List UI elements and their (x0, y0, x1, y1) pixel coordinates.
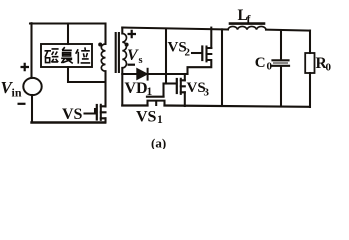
transistor VS stubs (101, 106, 106, 118)
svg-text:3: 3 (204, 87, 210, 99)
magnetic reset box 磁复位 (41, 44, 92, 67)
transistor VS channel (100, 105, 102, 120)
svg-text:VD: VD (125, 80, 148, 97)
wire source bottom to bottom rail (31, 95, 33, 123)
wire VS1 gate drop (162, 84, 164, 97)
wire secondary bottom lead down to bottom rail (121, 68, 123, 106)
svg-text:(a): (a) (151, 136, 166, 150)
transistor VS2 drain lead (210, 28, 212, 48)
wire VD1 cathode to VS2-source node (148, 73, 188, 75)
transistor VS3 drain lead (184, 74, 186, 80)
transistor VS2 gate lead (192, 52, 202, 54)
transistor VS3 channel (180, 79, 182, 94)
svg-text:s: s (139, 55, 143, 66)
inductor Lf core bar (230, 22, 264, 25)
wire gate junction horizontal to VS3 gate (164, 82, 176, 84)
svg-text:VS: VS (62, 106, 83, 123)
resistor R0 bottom lead (309, 73, 311, 107)
diode VD1 anode wire (122, 73, 137, 75)
voltage source Vin (23, 78, 41, 95)
wire bottom rail secondary side (122, 106, 309, 107)
wire top-left rail (30, 22, 105, 24)
minus sign Vin (18, 103, 26, 105)
wire freewheel node vertical (221, 29, 223, 106)
wire secondary top lead (121, 28, 123, 34)
transformer secondary winding (122, 34, 126, 68)
transistor VS source lead (104, 118, 106, 122)
capacitor C0 top lead (280, 30, 282, 60)
transformer core (116, 33, 119, 72)
wire reset-box top drop (67, 24, 69, 45)
capacitor C0 plates (273, 59, 289, 61)
resistor R0 body (305, 53, 314, 73)
plus sign Vs (128, 30, 137, 38)
node dot secondary polarity (125, 43, 129, 47)
transistor VS2 gate bar (201, 47, 203, 61)
svg-text:1: 1 (157, 114, 163, 126)
transistor VS2 channel (205, 47, 207, 62)
capacitor C0 bottom lead (280, 67, 282, 107)
minus sign Vs (128, 64, 136, 66)
transistor VS1 gate bar (147, 96, 164, 98)
svg-text:V: V (127, 47, 139, 64)
wire reset-box bottom elbow (68, 67, 105, 82)
node dot primary polarity (98, 43, 102, 47)
transistor VS3 source lead (184, 92, 186, 106)
svg-text:0: 0 (267, 61, 273, 73)
svg-text:2: 2 (185, 47, 191, 59)
transistor VS3 gate bar (176, 79, 178, 93)
transistor VS3 stubs (181, 80, 185, 92)
wire Lf to output (266, 30, 310, 31)
svg-text:in: in (12, 86, 22, 100)
plus sign Vin (21, 63, 30, 71)
label 磁复位 (drawn strokes) (45, 47, 91, 63)
wire primary bottom lead to VS drain (104, 71, 106, 106)
transistor VS gate lead (85, 109, 96, 114)
svg-text:1: 1 (147, 86, 153, 98)
wire gate drive vertical from top rail (165, 29, 167, 84)
wire primary top lead (104, 24, 106, 45)
wire VS2 source elbow down to node (188, 62, 212, 74)
wire left vertical from rail to source + (30, 23, 32, 78)
svg-text:VS: VS (136, 109, 157, 126)
diode VD1 (137, 69, 147, 79)
resistor R0 top lead (309, 31, 311, 53)
transformer primary winding (101, 44, 105, 71)
wire secondary top rail to Lf (122, 28, 228, 30)
svg-text:0: 0 (326, 62, 332, 74)
svg-text:C: C (255, 55, 266, 71)
transistor VS2 stubs (207, 48, 212, 60)
inductor Lf winding (228, 26, 266, 29)
transistor VS gate bar (96, 105, 98, 120)
wire bottom-left rail (32, 121, 106, 123)
transistor VS1 channel and leads (148, 101, 165, 106)
